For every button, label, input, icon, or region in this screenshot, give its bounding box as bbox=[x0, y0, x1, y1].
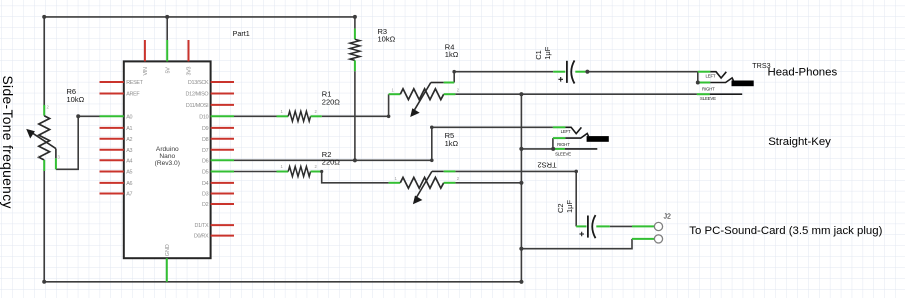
junction dot R2 step corner bbox=[320, 170, 323, 173]
svg-text:10kΩ: 10kΩ bbox=[378, 35, 396, 44]
svg-text:D3: D3 bbox=[202, 192, 209, 198]
svg-text:3V3: 3V3 bbox=[187, 67, 193, 76]
pin 5V bbox=[166, 40, 168, 61]
capacitor C1 bbox=[553, 60, 585, 83]
junction dot R1-R4 corner bbox=[387, 115, 391, 119]
svg-text:D12/MISO: D12/MISO bbox=[186, 92, 209, 98]
wire R2 to R5 left end bbox=[322, 172, 389, 183]
svg-text:TRS2: TRS2 bbox=[537, 161, 556, 170]
pin D4 bbox=[211, 182, 234, 184]
svg-text:AREF: AREF bbox=[126, 92, 140, 98]
wire D6 to TRS2 LEFT bbox=[234, 127, 553, 160]
svg-text:1μF: 1μF bbox=[565, 200, 574, 213]
svg-text:D9: D9 bbox=[202, 126, 209, 132]
pin D0/RX bbox=[211, 235, 234, 237]
Arduino Nano U1 bbox=[100, 40, 235, 282]
wire R6 wiper to A0 bbox=[56, 116, 100, 169]
connector J2 bbox=[632, 222, 663, 243]
resistor R3 bbox=[350, 29, 360, 72]
pin labels top (rotated) bbox=[143, 67, 193, 76]
pin D9 bbox=[211, 127, 234, 129]
pin A1 bbox=[100, 127, 124, 129]
svg-text:A4: A4 bbox=[126, 158, 132, 164]
junction dot 5V tap bbox=[165, 15, 169, 19]
svg-text:1kΩ: 1kΩ bbox=[445, 50, 459, 59]
svg-text:D4: D4 bbox=[202, 181, 209, 187]
svg-text:D13/SCK: D13/SCK bbox=[188, 80, 209, 86]
resistor R2 bbox=[277, 164, 322, 176]
svg-text:D2: D2 bbox=[202, 202, 209, 208]
pin A4 bbox=[100, 159, 124, 161]
junction dot TRS2 right-sleeve tie bbox=[551, 147, 555, 151]
junction dot R4 wiper corner bbox=[452, 70, 456, 74]
svg-text:Side-Tone frequency: Side-Tone frequency bbox=[0, 76, 15, 209]
svg-text:1kΩ: 1kΩ bbox=[445, 139, 459, 148]
pin D11/MOSI bbox=[211, 104, 234, 106]
wire left vertical from top rail to R6 top bbox=[43, 17, 45, 105]
wire 5V pin drop bbox=[166, 17, 168, 40]
junction dot ground bus top bbox=[519, 92, 523, 96]
wire R5 right end to ground bus bbox=[455, 182, 521, 184]
wire 5V top rail bbox=[44, 16, 355, 18]
svg-text:10kΩ: 10kΩ bbox=[67, 95, 85, 104]
svg-text:RESET: RESET bbox=[126, 80, 143, 86]
wire R3 bottom to D6 net bbox=[354, 71, 356, 160]
pin A5 bbox=[100, 171, 124, 173]
wire D5 to R2 bbox=[234, 171, 277, 173]
junction dot top rail right corner bbox=[353, 15, 357, 19]
svg-text:5V: 5V bbox=[165, 67, 171, 74]
svg-text:D5: D5 bbox=[202, 170, 209, 176]
svg-text:D10: D10 bbox=[199, 114, 208, 120]
pin A0 bbox=[100, 115, 124, 117]
wire ground bottom rail bbox=[44, 281, 521, 283]
pin A7 bbox=[100, 193, 124, 195]
svg-text:(Rev3.0): (Rev3.0) bbox=[155, 160, 180, 167]
svg-text:D11/MOSI: D11/MOSI bbox=[186, 103, 208, 109]
svg-text:RIGHT: RIGHT bbox=[702, 87, 715, 92]
svg-text:220Ω: 220Ω bbox=[322, 158, 341, 167]
resistor R1 bbox=[277, 109, 322, 121]
wire left vertical R6 bottom to bottom rail bbox=[43, 171, 45, 282]
junction dot ground bus TRS2 sleeve bbox=[519, 147, 523, 151]
svg-text:A3: A3 bbox=[126, 148, 132, 154]
svg-text:A7: A7 bbox=[126, 192, 132, 198]
svg-text:A5: A5 bbox=[126, 170, 132, 176]
pin D7 bbox=[211, 149, 234, 151]
junction dot R5 wiper corner bbox=[574, 170, 578, 174]
svg-text:A2: A2 bbox=[126, 137, 132, 143]
junction dot R3 bottom on D6 net bbox=[353, 158, 357, 162]
svg-text:A6: A6 bbox=[126, 181, 132, 187]
svg-text:SLEEVE: SLEEVE bbox=[700, 96, 716, 101]
junction dot D6 riser bottom corner bbox=[430, 159, 434, 163]
svg-text:To PC-Sound-Card (3.5 mm jack: To PC-Sound-Card (3.5 mm jack plug) bbox=[689, 225, 882, 237]
junction dot ground bus R5 bbox=[519, 181, 523, 185]
pin D3 bbox=[211, 193, 234, 195]
svg-text:RIGHT: RIGHT bbox=[557, 142, 570, 147]
pin GND bbox=[166, 258, 168, 282]
pin D12/MISO bbox=[211, 93, 234, 95]
wire ground bus to TRS2 SLEEVE bbox=[521, 148, 553, 150]
wire R4 right end to TRS3 SLEEVE (ground net) bbox=[455, 93, 697, 95]
svg-text:LEFT: LEFT bbox=[706, 74, 716, 79]
pin D2 bbox=[211, 203, 234, 205]
junction dot ground bus J2 branch bbox=[519, 247, 523, 251]
svg-text:220Ω: 220Ω bbox=[322, 97, 341, 106]
svg-text:Part1: Part1 bbox=[233, 29, 250, 38]
junction dot TRS3 left-right tie bbox=[696, 81, 700, 85]
pin D5 bbox=[211, 171, 234, 173]
potentiometer R5 bbox=[389, 171, 460, 204]
svg-text:D0/RX: D0/RX bbox=[194, 234, 209, 240]
svg-text:J2: J2 bbox=[664, 213, 672, 220]
wire J2 sleeve to ground bus bbox=[521, 239, 632, 249]
wire D10 to R1 bbox=[234, 115, 277, 117]
wire R1 to R4 left end bbox=[322, 94, 389, 116]
potentiometer R4 bbox=[389, 83, 460, 118]
junction dot A0 corner bbox=[76, 114, 80, 118]
pin D8 bbox=[211, 138, 234, 140]
wire R3 top connector bbox=[354, 17, 356, 29]
pin 3V3 bbox=[188, 40, 190, 61]
TRS jack TRS2 straight key bbox=[553, 127, 609, 156]
svg-text:SLEEVE: SLEEVE bbox=[555, 152, 571, 157]
part name Arduino Nano (Rev3.0) bbox=[155, 146, 180, 167]
wire C2 right to J2 tip bbox=[610, 225, 632, 227]
potentiometer R6 bbox=[26, 105, 60, 172]
svg-text:LEFT: LEFT bbox=[561, 129, 571, 134]
svg-text:D7: D7 bbox=[202, 148, 209, 154]
wire R5 wiper to C2 bbox=[455, 171, 576, 226]
svg-text:Straight-Key: Straight-Key bbox=[768, 136, 831, 148]
TRS jack TRS3 head-phones bbox=[697, 72, 754, 101]
capacitor C2 bbox=[576, 215, 610, 238]
svg-text:A0: A0 bbox=[126, 114, 132, 120]
pin labels right bbox=[186, 80, 209, 240]
pin A2 bbox=[100, 138, 124, 140]
junction dot bottom rail left corner bbox=[42, 280, 46, 284]
wire R4 wiper to C1 bbox=[454, 72, 553, 83]
pin D1/TX bbox=[211, 224, 234, 226]
svg-text:D1/TX: D1/TX bbox=[195, 223, 209, 229]
pin D6 bbox=[211, 159, 234, 161]
svg-text:GND: GND bbox=[165, 244, 171, 256]
svg-text:VIN: VIN bbox=[143, 67, 149, 75]
svg-text:A1: A1 bbox=[126, 126, 132, 132]
junction dot C1 right bbox=[585, 70, 589, 74]
junction dot ground bus bottom bbox=[519, 280, 523, 284]
wire ground vertical bus bbox=[520, 94, 522, 282]
junction dot D6 riser corner bbox=[430, 126, 434, 130]
svg-text:Head-Phones: Head-Phones bbox=[768, 66, 838, 78]
pin AREF bbox=[100, 93, 124, 95]
junction dot top-left corner bbox=[42, 15, 46, 19]
svg-text:C1: C1 bbox=[534, 50, 543, 60]
svg-text:C2: C2 bbox=[556, 203, 565, 213]
pin A3 bbox=[100, 149, 124, 151]
pin A6 bbox=[100, 182, 124, 184]
pin D13/SCK bbox=[211, 81, 234, 83]
pin D10 bbox=[211, 115, 234, 117]
svg-text:D6: D6 bbox=[202, 158, 209, 164]
pin VIN bbox=[144, 40, 146, 61]
svg-text:D8: D8 bbox=[202, 137, 209, 143]
wire C1 to TRS3 LEFT bbox=[585, 71, 697, 73]
svg-text:1μF: 1μF bbox=[543, 46, 552, 59]
pin RESET bbox=[100, 81, 124, 83]
pin labels left bbox=[126, 80, 143, 198]
